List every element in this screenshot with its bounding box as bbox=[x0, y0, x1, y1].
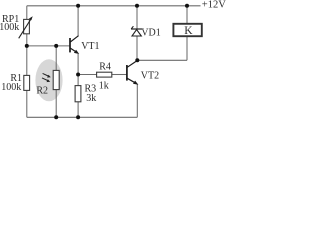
svg-text:VT1: VT1 bbox=[81, 41, 99, 52]
wire: R3 vertical branch bbox=[77, 75, 79, 118]
junction: VT1 emitter / R3 / R4 node bbox=[76, 73, 80, 77]
potentiometer RP1 bbox=[19, 16, 33, 38]
wire: relay K top lead bbox=[186, 6, 188, 24]
wire: VT2 emitter down to bottom rail bbox=[136, 84, 138, 117]
wire: R2 vertical branch bbox=[55, 46, 57, 117]
highlight ellipse (around R2 photoresistor) bbox=[35, 59, 62, 101]
transistor VT2 bbox=[127, 61, 138, 85]
wire: VD1 vertical from top rail bbox=[136, 6, 138, 61]
svg-text:100k: 100k bbox=[1, 82, 21, 93]
wire: bottom rail bbox=[27, 116, 138, 118]
resistor R3 bbox=[75, 86, 81, 102]
svg-text:VD1: VD1 bbox=[141, 27, 160, 38]
resistor R4 bbox=[97, 72, 112, 77]
svg-text:1k: 1k bbox=[99, 80, 109, 91]
svg-text:100k: 100k bbox=[0, 22, 19, 33]
wire: node to R4 left lead bbox=[78, 74, 97, 76]
relay coil K bbox=[173, 24, 201, 36]
wire: +12V top rail bbox=[27, 5, 201, 7]
svg-text:3k: 3k bbox=[86, 93, 96, 104]
svg-text:+12V: +12V bbox=[202, 0, 226, 10]
wire: R4 right lead to VT2 base bbox=[112, 74, 127, 76]
svg-text:K: K bbox=[184, 25, 193, 37]
wire: horizontal VD1/VT2 collector to relay bbox=[137, 59, 187, 61]
junction: R2 bottom at bottom rail bbox=[54, 115, 58, 119]
svg-text:VT2: VT2 bbox=[141, 70, 159, 81]
junction: R2 top node bbox=[54, 44, 58, 48]
wire: VT1 collector to top rail bbox=[77, 6, 79, 36]
diode VD1 bbox=[131, 26, 142, 36]
junction: VD1 / VT2 collector node bbox=[135, 58, 139, 62]
resistor R1 bbox=[24, 75, 30, 90]
svg-text:R4: R4 bbox=[99, 61, 111, 72]
wire: VT1 emitter down to node bbox=[77, 54, 79, 75]
junction: VT1 collector at top rail bbox=[76, 4, 80, 8]
junction: relay K at top rail bbox=[185, 4, 189, 8]
junction: R3 bottom at bottom rail bbox=[76, 115, 80, 119]
wire: middle horizontal to VT1 base bbox=[27, 45, 70, 47]
svg-text:R2: R2 bbox=[36, 85, 48, 96]
junction: RP1/R1/base node bbox=[25, 44, 29, 48]
transistor VT1 bbox=[70, 36, 79, 54]
wire: left vertical branch (RP1/R1) bbox=[26, 6, 28, 118]
junction: VD1 at top rail bbox=[135, 4, 139, 8]
wire: relay K bottom lead down bbox=[186, 37, 188, 61]
photoresistor R2 bbox=[42, 70, 59, 89]
